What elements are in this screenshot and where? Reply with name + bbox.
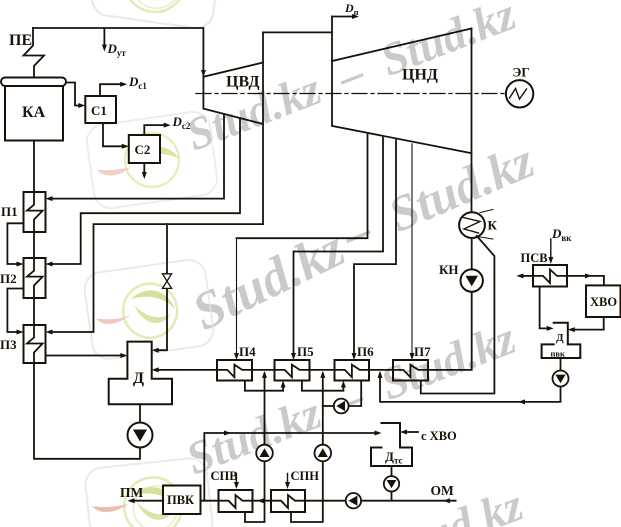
svg-text:П4: П4	[239, 344, 256, 359]
svg-text:С2: С2	[135, 142, 151, 157]
heater PSV	[533, 265, 567, 287]
SPV drain pump	[256, 445, 273, 462]
svg-text:С1: С1	[91, 103, 107, 118]
svg-text:П1: П1	[1, 204, 18, 219]
wire Dpvk to pump	[560, 358, 562, 371]
wire steam to deaerator D with valve	[166, 224, 168, 273]
heater P6	[335, 360, 370, 381]
svg-text:П6: П6	[357, 344, 374, 359]
svg-text:ПСВ: ПСВ	[521, 251, 548, 265]
heater P4	[217, 360, 252, 381]
heater P5	[275, 360, 310, 381]
SPN drain pump	[315, 445, 332, 462]
wire PSV to Dpvk	[540, 287, 550, 329]
svg-text:СПВ: СПВ	[211, 469, 238, 483]
wire PSV to HVO	[567, 276, 604, 286]
svg-text:– Stud.kz: – Stud.kz	[333, 132, 542, 263]
wire C2 drain	[143, 163, 145, 174]
wire P1 drain to P2	[7, 223, 23, 264]
wire steam admission to CVD	[202, 28, 204, 109]
wire SPV drain riser	[264, 374, 266, 445]
wire PVK tap riser	[204, 433, 377, 501]
heater P2	[24, 258, 46, 298]
boiler PVK	[163, 486, 201, 515]
wire extraction 2 to P2	[50, 118, 240, 264]
network pump	[346, 493, 361, 508]
svg-text:ПВК: ПВК	[167, 493, 194, 507]
wire SPV to SPN	[253, 500, 272, 502]
wire main steam line top	[33, 27, 203, 29]
svg-text:КН: КН	[439, 262, 459, 277]
svg-text:Dс1: Dс1	[128, 74, 147, 91]
turbine CVD outline	[203, 63, 263, 77]
svg-text:КА: КА	[22, 104, 46, 121]
wire CND extraction to P7	[411, 144, 413, 357]
wire D_c2	[144, 125, 166, 135]
wire P2 drain to P3	[7, 289, 23, 333]
svg-text:Dп: Dп	[344, 1, 359, 17]
shaft centerline	[196, 93, 506, 95]
wire SPN to network pump	[305, 500, 346, 502]
logo watermarks	[82, 0, 222, 527]
drain pump P6	[334, 399, 349, 414]
wire D_ut tap	[103, 28, 105, 47]
heater P7	[393, 360, 428, 381]
condenser K	[459, 212, 485, 238]
pump Dts	[384, 476, 399, 491]
wire P5 drain to P6	[302, 381, 344, 391]
svg-text:ПМ: ПМ	[120, 485, 144, 500]
deaerator Dpvk	[542, 323, 581, 358]
boiler drum KA	[1, 78, 66, 87]
svg-text:Д: Д	[133, 370, 144, 387]
wire D to feed pump	[139, 404, 141, 422]
steam stub SPN	[287, 474, 289, 487]
heater SPV	[219, 490, 253, 512]
svg-text:П5: П5	[297, 344, 314, 359]
svg-text:Д: Д	[556, 332, 564, 344]
steam stub SPV	[235, 474, 237, 487]
wire network return OM	[361, 500, 456, 502]
wire P4 drain to P5	[245, 381, 283, 391]
deaerator Dts	[371, 423, 412, 466]
wire HVO to Dpvk	[572, 317, 604, 330]
wire crossover CVD to CND	[263, 31, 332, 33]
wire D_c1	[100, 84, 123, 96]
wire KA to C1	[66, 83, 81, 106]
wire feedwater riser through P1 P2 P3	[27, 141, 140, 459]
svg-text:СПН: СПН	[291, 469, 320, 483]
boiler KA body	[5, 86, 63, 141]
superheater PE zigzag	[24, 28, 45, 78]
wire PVK to SPV	[201, 500, 219, 502]
svg-text:с ХВО: с ХВО	[421, 429, 457, 443]
heater P1	[24, 192, 46, 232]
svg-text:П7: П7	[414, 344, 431, 359]
wire P3 outlet to deaerator D	[46, 355, 123, 357]
wire P6 drain to pump	[349, 381, 362, 407]
svg-text:Stud.kz: Stud.kz	[381, 479, 529, 527]
svg-text:К: К	[488, 218, 498, 233]
condensate pump KN	[461, 269, 483, 291]
separator C2	[129, 135, 160, 163]
wire network supply PM	[131, 500, 163, 502]
wire extraction 1 to P1	[50, 114, 224, 199]
box HVO	[586, 285, 621, 317]
wire CND extraction to P6	[354, 140, 396, 357]
wire PSV left outlet	[521, 275, 533, 277]
wire C1 to C2	[103, 123, 124, 146]
svg-text:Dвк: Dвк	[551, 226, 572, 243]
heater P3	[24, 325, 46, 363]
heater SPN	[271, 490, 305, 512]
svg-text:Dут: Dут	[107, 41, 127, 58]
svg-text:П2: П2	[0, 271, 17, 286]
pump Dpvk	[553, 371, 569, 387]
svg-text:ХВО: ХВО	[590, 295, 617, 309]
svg-text:ПЕ: ПЕ	[9, 32, 32, 49]
turbine CND outline	[331, 17, 333, 127]
svg-text:П3: П3	[0, 337, 17, 352]
generator EG	[506, 80, 533, 107]
wire Dts to pump	[391, 466, 393, 476]
svg-text:ЭГ: ЭГ	[513, 65, 530, 80]
wire Dpvk return line	[380, 374, 561, 402]
wire P7 drain to condenser	[421, 236, 495, 394]
svg-text:ОМ: ОМ	[431, 483, 455, 498]
wire extraction 3 to P3	[50, 224, 263, 332]
svg-text:пвк: пвк	[551, 349, 565, 359]
svg-text:ЦНД: ЦНД	[402, 67, 438, 84]
wire CND extraction to P5	[294, 138, 384, 357]
svg-text:ЦВД: ЦВД	[226, 74, 260, 91]
separator C1	[85, 96, 116, 123]
wire main condensate line	[157, 369, 217, 371]
deaerator D	[109, 342, 172, 405]
valve	[162, 274, 171, 289]
wire CND extraction to P4	[237, 135, 368, 239]
watermark layer	[179, 0, 542, 527]
wire D_vk into PSV	[550, 239, 552, 261]
wire s HVO to Dts	[404, 431, 418, 433]
wire SPN drain riser	[322, 374, 324, 445]
feed pump	[128, 423, 153, 448]
wire D_p tap	[332, 16, 354, 18]
